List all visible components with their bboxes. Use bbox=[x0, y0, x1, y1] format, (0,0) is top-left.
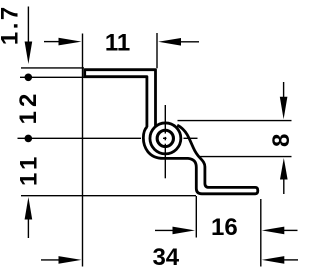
dimension 11 top right arrow bbox=[158, 38, 181, 46]
knuckle inner circle (pin hole) bbox=[157, 130, 173, 146]
extension line flange bottom surface bbox=[20, 76, 84, 78]
horizontal center line through knuckle bbox=[18, 137, 142, 139]
dimension dot at flange bottom bbox=[25, 74, 33, 82]
bottom right vertical extension line bbox=[260, 199, 262, 267]
svg-text:34: 34 bbox=[152, 244, 179, 269]
extension line lower left bbox=[21, 195, 196, 197]
dimension dot at knuckle center bbox=[25, 135, 33, 143]
dimension 1.7 down arrow bbox=[27, 7, 29, 43]
knuckle outer circle bbox=[150, 123, 181, 154]
svg-text:8: 8 bbox=[268, 134, 295, 147]
extension line knuckle top tangent bbox=[178, 120, 292, 122]
bottom middle vertical extension line bbox=[195, 196, 197, 238]
hinge top flange and upper leaf profile bbox=[85, 70, 156, 127]
svg-text:11: 11 bbox=[105, 30, 130, 57]
extension line flange top surface bbox=[21, 67, 84, 69]
knuckle curl and lower leaf profile bbox=[143, 125, 257, 194]
svg-text:11: 11 bbox=[15, 153, 42, 186]
dimension 34 left arrow bbox=[41, 259, 60, 261]
extension line lower leaf top tangent bbox=[198, 156, 292, 158]
vertical center line through knuckle bbox=[164, 105, 166, 134]
svg-text:16: 16 bbox=[211, 214, 238, 241]
svg-text:1.7: 1.7 bbox=[0, 4, 24, 45]
left vertical extension line bbox=[82, 34, 84, 267]
dimension 11 top left arrow bbox=[44, 41, 60, 43]
dimension 34 right arrow bbox=[262, 256, 285, 264]
dimension 8 up arrow bbox=[280, 158, 288, 180]
dimension 8 down arrow bbox=[283, 82, 285, 98]
top right vertical extension line bbox=[156, 33, 158, 68]
dimension 16 left arrow bbox=[155, 229, 174, 231]
svg-text:12: 12 bbox=[15, 90, 42, 125]
dimension 16 right arrow bbox=[262, 227, 285, 235]
dimension 11 left up arrow bbox=[25, 197, 33, 220]
